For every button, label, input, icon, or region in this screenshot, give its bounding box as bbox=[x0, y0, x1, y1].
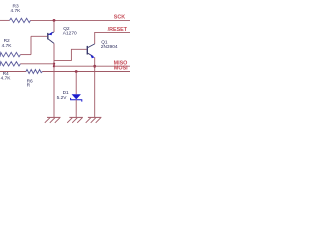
wire stair to Q1 base bbox=[54, 49, 87, 60]
Q2 emitter diagonal bbox=[48, 32, 54, 35]
svg-text:R: R bbox=[27, 83, 31, 89]
svg-text:4.7K: 4.7K bbox=[1, 76, 12, 82]
svg-text:4.7K: 4.7K bbox=[2, 43, 13, 49]
wire SCK rail right segment bbox=[31, 19, 131, 21]
svg-text:5.2V: 5.2V bbox=[57, 95, 68, 101]
ground symbol G3 bbox=[86, 117, 102, 122]
resistor R4 bbox=[0, 62, 20, 82]
wire R2 stair vertical bbox=[30, 36, 32, 54]
node junction MOSI with D1 bbox=[75, 70, 78, 73]
svg-text:MOSI: MOSI bbox=[114, 66, 128, 72]
transistor Q1 2N3904 bbox=[87, 39, 118, 58]
node junction on SCK rail bbox=[53, 19, 56, 22]
D1 triangle bbox=[72, 94, 81, 99]
wire MISO line bbox=[54, 65, 130, 67]
wire Q2 collector vertical main drop bbox=[53, 43, 55, 117]
transistor Q2 A1270 bbox=[48, 20, 77, 43]
node junction R4 line bbox=[53, 63, 55, 65]
Q1 base bar bbox=[86, 46, 88, 55]
wire /RESET line bbox=[95, 32, 130, 44]
wire MOSI line left segment bbox=[0, 71, 26, 73]
svg-text:2N3904: 2N3904 bbox=[101, 44, 118, 50]
resistor R3 bbox=[10, 3, 31, 22]
wire SCK rail left segment bbox=[0, 19, 10, 21]
svg-text:4.7K: 4.7K bbox=[11, 8, 22, 14]
Q1 emitter arrow bbox=[90, 54, 95, 58]
node junction MISO start bbox=[53, 65, 55, 67]
wire R2 to stair bbox=[20, 54, 31, 56]
ground symbol G1 bbox=[45, 117, 61, 122]
resistor R6 bbox=[26, 70, 42, 89]
resistor R2 bbox=[0, 38, 20, 57]
wire Q2 emitter vertical bbox=[53, 20, 55, 32]
wire Q1 emitter vertical bbox=[94, 57, 96, 117]
ground symbol G2 bbox=[67, 117, 83, 122]
svg-text:/RESET: /RESET bbox=[108, 27, 128, 33]
Q1 collector diagonal bbox=[88, 44, 95, 48]
svg-text:A1270: A1270 bbox=[63, 31, 77, 37]
wire Q2 base lead bbox=[31, 35, 47, 37]
Q2 emitter arrow bbox=[48, 32, 52, 36]
svg-text:SCK: SCK bbox=[114, 14, 125, 20]
node junction MISO with Q1 emitter bbox=[93, 65, 96, 68]
Q2 collector diagonal bbox=[48, 39, 54, 43]
D1 cathode bar with zener wings bbox=[71, 98, 82, 102]
wire R4 line to junction bbox=[20, 63, 54, 65]
Q2 base bar bbox=[47, 33, 49, 40]
wire D1 top lead bbox=[75, 72, 77, 95]
wire D1 bottom lead bbox=[75, 100, 77, 118]
Q1 emitter diagonal bbox=[88, 53, 94, 56]
diode D1 zener 5.2V bbox=[57, 72, 82, 118]
wire MOSI line right segment bbox=[42, 71, 130, 73]
